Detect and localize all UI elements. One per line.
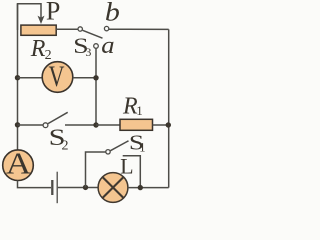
wire: battery to lamp — [58, 187, 99, 189]
svg-text:3: 3 — [85, 45, 91, 59]
lamp cross stroke 1 — [103, 177, 124, 198]
node: R1 / right rail — [166, 122, 171, 127]
wiper arrowhead — [38, 16, 45, 24]
wire: node to R1 — [96, 124, 121, 126]
wire: contact a down to R1 branch node — [95, 48, 97, 125]
wire: lamp right to bottom-right corner — [128, 187, 169, 189]
wire: S2 left lead — [18, 124, 44, 126]
wire: S2 right lead to node — [65, 124, 96, 126]
switch S3 contact a — [94, 44, 99, 49]
resistor R2 — [21, 25, 56, 35]
switch S2 pivot contact — [43, 123, 48, 128]
node: lamp wire / S1 right branch — [138, 185, 143, 190]
wire: contact b to top-right corner — [109, 28, 169, 30]
switch S1 blade — [110, 141, 128, 151]
wire: S1 left branch up and over — [86, 152, 106, 188]
ammeter A — [3, 150, 34, 181]
wire: ammeter to bottom rail — [18, 180, 52, 187]
svg-text:1: 1 — [139, 141, 145, 155]
node: left rail / S2 branch — [15, 122, 20, 127]
lamp cross stroke 2 — [103, 177, 124, 198]
wire: rheostat wiper loop top-left — [18, 4, 42, 30]
wire: voltmeter right lead — [73, 77, 96, 79]
wire: S1 right step down to lamp wire — [123, 156, 141, 188]
wire: left vertical rail — [17, 4, 19, 150]
lamp L — [98, 173, 128, 203]
battery positive plate (long thin) — [56, 172, 58, 204]
battery negative plate (short thick) — [51, 180, 53, 195]
node: battery wire / S1 left branch — [83, 185, 88, 190]
node: voltmeter branch / a-wire — [93, 75, 98, 80]
node: a-wire / R1 branch — [93, 122, 98, 127]
node: left rail / voltmeter branch — [15, 75, 20, 80]
svg-text:V: V — [49, 60, 65, 93]
svg-text:a: a — [101, 33, 114, 59]
switch S2 blade — [48, 112, 68, 123]
svg-text:2: 2 — [62, 139, 69, 154]
svg-text:A: A — [6, 146, 32, 181]
wire: R2 right terminal to S3 pivot — [56, 28, 78, 30]
switch S3 blade — [83, 30, 103, 38]
resistor R1 — [120, 119, 153, 130]
voltmeter V — [42, 62, 73, 93]
switch S1 pivot contact — [106, 150, 110, 154]
svg-text:b: b — [105, 0, 120, 26]
svg-text:L: L — [120, 154, 133, 179]
switch S3 contact b — [104, 26, 108, 30]
switch S3 pivot contact — [78, 27, 82, 31]
svg-text:1: 1 — [136, 103, 143, 118]
wire: right vertical rail — [168, 29, 170, 187]
svg-text:R: R — [30, 36, 46, 62]
svg-text:P: P — [46, 0, 60, 26]
wire: R1 right lead — [153, 124, 169, 126]
wire: voltmeter left lead — [18, 77, 44, 79]
